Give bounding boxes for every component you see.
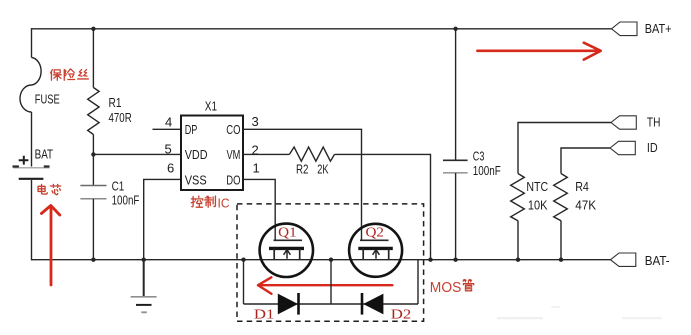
terminal TH <box>611 116 636 129</box>
label BAT+ <box>645 22 672 36</box>
svg-text:6: 6 <box>167 161 174 176</box>
red label Q2 <box>366 225 385 240</box>
red annotation 保险丝 (fuse) <box>51 69 89 80</box>
label C3 <box>473 150 485 164</box>
wire bottom rail BAT- net <box>32 259 611 261</box>
wire VSS pin 6 to ground drop <box>144 179 181 259</box>
svg-text:2: 2 <box>252 143 259 158</box>
svg-text:R1: R1 <box>109 96 122 110</box>
faint watermark remnants <box>497 306 662 319</box>
svg-text:47K: 47K <box>575 199 597 213</box>
wire diode branch right leg <box>417 260 419 304</box>
svg-text:3: 3 <box>252 114 259 129</box>
label FUSE <box>35 92 60 106</box>
terminal ID <box>610 141 635 154</box>
label R2 <box>296 162 309 176</box>
label BAT- <box>645 254 670 268</box>
svg-text:BAT+: BAT+ <box>645 22 672 36</box>
node junction C3 / bottom rail <box>453 258 457 262</box>
svg-text:4: 4 <box>165 115 172 130</box>
svg-text:MOS: MOS <box>430 280 462 296</box>
svg-text:100nF: 100nF <box>473 164 501 178</box>
IC U1 control IC X1 <box>181 116 243 191</box>
red annotation 电芯 (battery cell) <box>38 184 61 194</box>
value label 100nF (C1) <box>112 194 140 208</box>
node junction R4 / bottom rail <box>559 258 563 262</box>
svg-text:D1: D1 <box>254 307 275 322</box>
capacitor C1 <box>80 186 106 199</box>
red label D2 <box>391 307 412 322</box>
svg-text:C3: C3 <box>473 150 485 164</box>
wire VM to bottom rail <box>335 154 431 259</box>
node junction diode left leg / bottom rail <box>241 258 245 262</box>
wire DP pin 4 stub <box>153 128 182 130</box>
wire diode branch left leg <box>243 260 245 304</box>
resistor R2 <box>289 147 334 161</box>
svg-text:BAT: BAT <box>35 147 54 161</box>
wire TH net <box>518 123 611 174</box>
wire CO pin 3 to Q2 gate <box>243 129 362 240</box>
diode D1 <box>278 293 299 315</box>
label NTC <box>526 180 548 194</box>
pin name VDD <box>185 148 208 162</box>
wire left vertical top rail to fuse <box>31 28 33 57</box>
svg-text:DO: DO <box>226 174 240 188</box>
wire VDD pin 5 <box>93 153 181 155</box>
node junction VSS / bottom rail <box>142 258 146 262</box>
wire C3 branch upper <box>455 29 457 160</box>
wire VM pin 2 segment <box>243 153 289 155</box>
svg-text:10K: 10K <box>528 199 548 213</box>
svg-text:ID: ID <box>647 141 658 155</box>
wire diode row <box>244 303 419 305</box>
label R4 <box>575 180 589 194</box>
value label 100nF (C3) <box>473 164 501 178</box>
thermistor NTC <box>511 174 525 221</box>
red arrow current right to BAT+ <box>477 43 600 60</box>
pin name VSS <box>185 174 207 188</box>
pin name CO <box>226 123 240 137</box>
pin name VM <box>227 148 241 162</box>
svg-text:DP: DP <box>185 123 198 137</box>
svg-text:FUSE: FUSE <box>35 92 60 106</box>
transistor Q1 MOSFET <box>260 224 313 277</box>
svg-text:BAT-: BAT- <box>645 254 670 268</box>
svg-text:CO: CO <box>226 123 240 137</box>
resistor R4 <box>554 174 568 221</box>
svg-text:VSS: VSS <box>185 174 207 188</box>
value label 10K <box>528 199 548 213</box>
label R1 <box>109 96 122 110</box>
label BAT <box>35 147 54 161</box>
node junction top rail / R1 branch <box>91 27 95 31</box>
red arrow current left through MOSFETs <box>258 277 392 294</box>
terminal BAT+ <box>612 22 638 36</box>
wire diode branch middle leg <box>330 260 332 304</box>
red annotation 控制IC (control IC) <box>191 196 229 210</box>
node junction VM / bottom rail <box>428 258 432 262</box>
svg-text:Q2: Q2 <box>366 225 385 240</box>
svg-text:IC: IC <box>218 197 230 211</box>
node junction NTC / bottom rail <box>516 258 520 262</box>
wire R1 to VDD tap <box>92 135 94 186</box>
svg-text:C1: C1 <box>112 179 125 193</box>
pin name DO <box>226 174 240 188</box>
pin number 1 <box>253 160 260 175</box>
svg-text:R4: R4 <box>575 180 589 194</box>
svg-text:R2: R2 <box>296 162 309 176</box>
svg-text:Q1: Q1 <box>278 225 297 240</box>
svg-text:D2: D2 <box>391 307 412 322</box>
label C1 <box>112 179 125 193</box>
fuse FUSE symbol <box>20 58 41 113</box>
svg-text:X1: X1 <box>205 99 217 113</box>
pin number 2 <box>252 143 259 158</box>
value label 2K <box>317 162 329 176</box>
wire NTC to bottom rail <box>517 221 519 260</box>
wire R4 to bottom rail <box>560 221 562 260</box>
pin number 3 <box>252 114 259 129</box>
resistor R1 <box>88 88 99 135</box>
battery BAT cell symbol <box>13 156 50 179</box>
wire battery to bottom rail <box>31 180 33 261</box>
value label 470R <box>109 111 132 125</box>
transistor Q2 MOSFET <box>349 224 402 277</box>
value label 47K <box>575 199 597 213</box>
wire fuse to battery <box>31 112 33 167</box>
svg-text:1: 1 <box>253 160 260 175</box>
node junction middle leg / bottom rail <box>329 258 333 262</box>
label TH <box>647 115 661 129</box>
svg-text:VDD: VDD <box>185 148 208 162</box>
wire ID net <box>561 148 610 174</box>
svg-text:VM: VM <box>227 148 241 162</box>
svg-text:100nF: 100nF <box>112 194 140 208</box>
red annotation MOS管 <box>430 279 474 295</box>
svg-text:470R: 470R <box>109 111 132 125</box>
pin number 6 <box>167 161 174 176</box>
svg-text:5: 5 <box>165 142 172 157</box>
wire top rail BAT+ net <box>32 28 612 30</box>
wire R1 branch upper <box>92 29 94 88</box>
diode D2 <box>362 293 383 315</box>
red label Q1 <box>278 225 297 240</box>
dashed MOS enclosure box <box>237 204 424 321</box>
wire C1 to bottom rail <box>92 199 94 260</box>
node junction top rail / C3 branch <box>453 27 457 31</box>
red label D1 <box>254 307 275 322</box>
svg-text:NTC: NTC <box>526 180 548 194</box>
svg-text:2K: 2K <box>317 162 329 176</box>
wire DO pin 1 to Q1 gate <box>243 179 275 240</box>
svg-text:TH: TH <box>647 115 661 129</box>
ground symbol <box>131 260 157 313</box>
red arrow current up from battery <box>41 206 59 286</box>
pin number 4 <box>165 115 172 130</box>
label ID <box>647 141 658 155</box>
node junction VDD tap <box>91 152 95 156</box>
terminal BAT- <box>611 253 636 266</box>
wire C3 branch lower <box>455 173 457 260</box>
pin number 5 <box>165 142 172 157</box>
capacitor C3 <box>443 160 468 173</box>
node junction C1 / bottom rail <box>91 258 95 262</box>
label X1 <box>205 99 217 113</box>
pin name DP <box>185 123 198 137</box>
